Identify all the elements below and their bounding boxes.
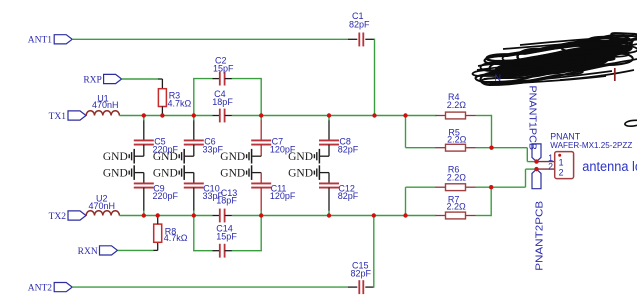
capacitor C2 15pF	[213, 55, 235, 85]
wire R6 branch left	[406, 187, 437, 215]
svg-text:ANT1: ANT1	[28, 36, 53, 46]
svg-text:18pF: 18pF	[212, 97, 233, 107]
wire stub top C8	[328, 116, 330, 140]
svg-text:2.2Ω: 2.2Ω	[447, 201, 467, 211]
port PNANT2PCB	[532, 169, 545, 271]
svg-text:1: 1	[559, 157, 564, 167]
svg-text:antenna loc: antenna loc	[582, 159, 637, 174]
capacitor C4 18pF	[212, 89, 233, 122]
svg-text:470nH: 470nH	[89, 201, 116, 211]
svg-text:470nH: 470nH	[92, 100, 119, 110]
capacitor C1 82pF	[348, 11, 375, 46]
svg-text:RXN: RXN	[78, 247, 98, 257]
wire stub top C6	[193, 116, 195, 140]
svg-text:GND: GND	[220, 151, 245, 163]
svg-text:33pF: 33pF	[203, 191, 224, 201]
ground GND C9	[103, 165, 134, 180]
wire TX2 main line	[119, 215, 212, 217]
resistor R3 4.7k	[158, 89, 191, 116]
svg-text:PNANT2PCB: PNANT2PCB	[534, 200, 545, 270]
svg-text:2.2Ω: 2.2Ω	[447, 100, 467, 110]
pin number 2	[548, 161, 553, 171]
wire TX1 to R4 node	[435, 115, 438, 117]
svg-text:N: N	[495, 73, 502, 83]
wire TX2 main line 2	[232, 215, 436, 217]
svg-text:GND: GND	[103, 168, 128, 180]
wire R6 right to pin2	[476, 169, 536, 187]
svg-text:2: 2	[548, 161, 553, 171]
port ANT1	[28, 35, 72, 46]
svg-text:82pF: 82pF	[349, 19, 370, 29]
inductor U2 470nH	[86, 194, 119, 216]
wire stub bottom C10	[193, 188, 195, 216]
svg-text:TX2: TX2	[49, 212, 67, 222]
wire GND to C12	[320, 173, 329, 184]
port TX1	[49, 111, 86, 122]
wire GND to C10	[185, 173, 194, 184]
wire R5 right to pin1	[476, 148, 536, 162]
wire C14 loop bottom	[193, 250, 262, 252]
wire stub top C5	[143, 116, 145, 140]
annotation swoosh	[625, 120, 637, 126]
pin line 1	[537, 161, 555, 163]
inductor U1 470nH	[86, 93, 119, 115]
label fragment under scribble	[495, 73, 502, 83]
svg-text:GND: GND	[153, 168, 178, 180]
svg-text:220pF: 220pF	[153, 191, 179, 201]
wire stub bottom C9	[143, 188, 145, 216]
svg-text:82pF: 82pF	[338, 191, 359, 201]
capacitor C8 82pF	[319, 137, 359, 155]
wire R4 right	[476, 115, 492, 148]
ground GND C6	[153, 149, 184, 164]
capacitor C10 33pF	[184, 183, 224, 201]
resistor R4 2.2ohm	[436, 92, 476, 119]
wire ANT2 to C15	[72, 286, 348, 288]
wire RXN to R8	[118, 242, 158, 250]
svg-text:4.7kΩ: 4.7kΩ	[164, 233, 188, 243]
wire GND to C11	[252, 173, 261, 184]
port PNANT1PCB	[527, 86, 542, 162]
ground GND C8	[288, 149, 319, 164]
connector PNANT WAFER-MX1.25-2PZZ	[550, 131, 632, 178]
svg-text:15pF: 15pF	[216, 231, 237, 241]
wire C13 loop left	[193, 216, 195, 251]
wire C2 loop right	[260, 79, 262, 116]
capacitor C7 120pF	[251, 137, 296, 155]
ground GND C11	[220, 165, 251, 180]
wire C1 down to TX1 node	[374, 39, 376, 116]
port RXP	[83, 74, 121, 85]
wire C2 loop top	[193, 78, 262, 80]
svg-text:TX1: TX1	[49, 112, 67, 122]
ground GND C7	[220, 149, 251, 164]
svg-text:4.7kΩ: 4.7kΩ	[168, 99, 192, 109]
svg-text:GND: GND	[220, 168, 245, 180]
resistor R5 2.2ohm	[436, 128, 476, 151]
ground GND C12	[288, 165, 319, 180]
wire stub bottom C11	[260, 188, 262, 216]
label antenna location	[582, 159, 637, 174]
wire RXP to R3	[122, 79, 163, 89]
resistor R6 2.2ohm	[436, 164, 476, 190]
wire C6 to GND	[185, 145, 194, 157]
svg-text:GND: GND	[153, 151, 178, 163]
red mark under scribble	[614, 68, 616, 81]
scribble redaction	[473, 33, 637, 85]
resistor R8 4.7k	[154, 216, 188, 243]
svg-text:RXP: RXP	[83, 75, 101, 85]
wire TX1 main line 2	[232, 115, 436, 117]
wire C5 to GND	[135, 145, 144, 157]
capacitor C13 18pF	[213, 188, 238, 222]
svg-text:120pF: 120pF	[270, 191, 296, 201]
wire C13 loop right	[260, 216, 262, 251]
ground GND C10	[153, 165, 184, 180]
svg-text:ANT2: ANT2	[28, 283, 53, 293]
wire ANT1 to C1	[72, 38, 348, 40]
svg-text:15pF: 15pF	[213, 64, 234, 74]
capacitor C15 82pF	[348, 260, 374, 294]
wire R7 right	[476, 187, 492, 216]
svg-text:82pF: 82pF	[351, 268, 372, 278]
svg-text:2: 2	[559, 168, 564, 178]
svg-text:WAFER-MX1.25-2PZZ: WAFER-MX1.25-2PZZ	[550, 140, 632, 150]
wire R5 branch left	[406, 116, 437, 148]
svg-text:2.2Ω: 2.2Ω	[447, 135, 467, 145]
svg-text:GND: GND	[288, 168, 313, 180]
capacitor C9 220pF	[134, 183, 179, 201]
resistor R7 2.2ohm	[436, 195, 476, 219]
wire C7 to GND	[252, 145, 261, 157]
svg-text:GND: GND	[288, 151, 313, 163]
capacitor C5 220pF	[134, 137, 179, 155]
pin line 2	[537, 168, 555, 170]
ground GND C5	[103, 149, 134, 164]
capacitor C11 120pF	[251, 183, 296, 201]
junction dots	[142, 113, 539, 217]
capacitor C14 15pF	[213, 224, 238, 258]
wire TX1 main line	[119, 115, 212, 117]
port RXN	[78, 246, 118, 257]
wire stub bottom C12	[328, 188, 330, 216]
svg-text:82pF: 82pF	[338, 145, 359, 155]
svg-text:GND: GND	[103, 151, 128, 163]
wire C8 to GND	[320, 145, 329, 157]
wire C2 loop left	[193, 79, 195, 116]
wire C15 up to TX2 node	[373, 216, 375, 288]
svg-text:PNANT1PCB: PNANT1PCB	[527, 86, 538, 151]
capacitor C12 82pF	[319, 183, 359, 201]
wire GND to C9	[135, 173, 144, 184]
svg-text:2.2Ω: 2.2Ω	[447, 172, 467, 182]
port ANT2	[28, 283, 72, 294]
port TX2	[49, 211, 86, 222]
pin number 1	[548, 153, 553, 163]
wire stub top C7	[260, 116, 262, 140]
capacitor C6 33pF	[184, 137, 224, 155]
